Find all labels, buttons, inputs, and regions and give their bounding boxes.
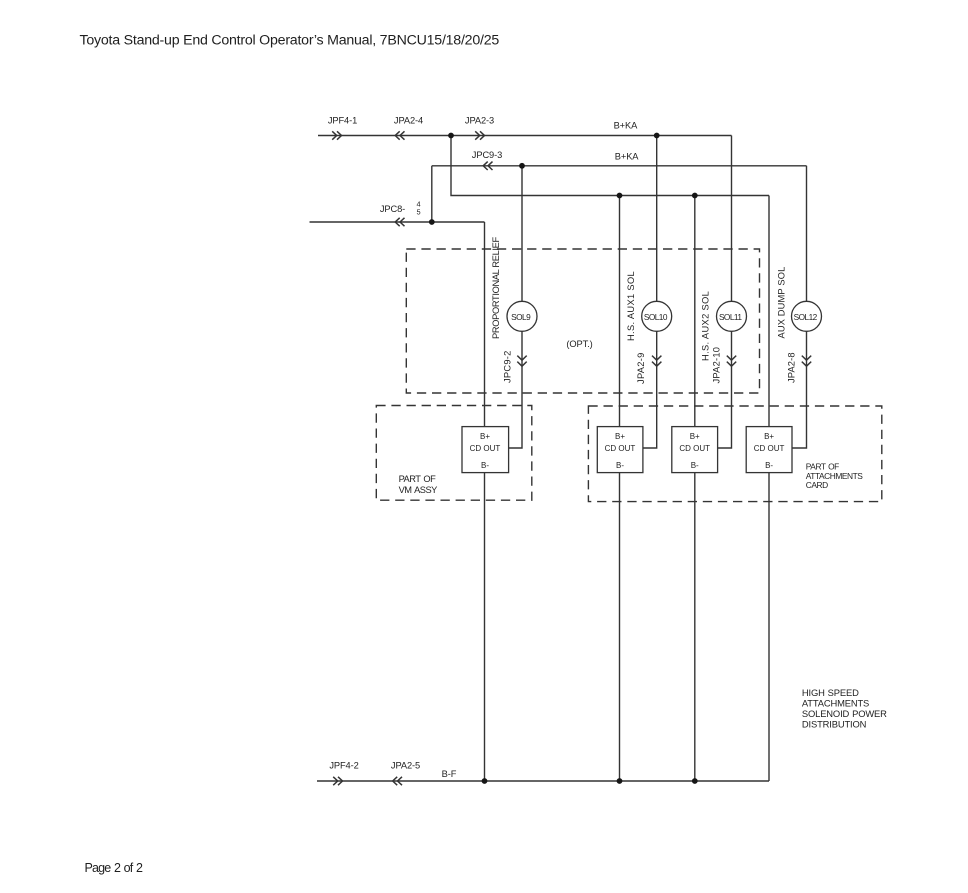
solenoid SOL11 bbox=[717, 301, 747, 331]
svg-text:DISTRIBUTION: DISTRIBUTION bbox=[802, 719, 866, 730]
wire B+KA top (JPF4-1/JPA2-4/JPA2-3) bbox=[318, 135, 732, 137]
svg-text:JPF4-1: JPF4-1 bbox=[328, 115, 357, 125]
wire B- return box4 bbox=[768, 473, 770, 781]
svg-text:CD OUT: CD OUT bbox=[470, 444, 501, 453]
svg-text:H.S. AUX1 SOL: H.S. AUX1 SOL bbox=[626, 271, 636, 341]
connector chevron below SOL10 (down) bbox=[652, 356, 661, 367]
svg-text:JPC9-2: JPC9-2 bbox=[503, 350, 513, 383]
svg-text:CD OUT: CD OUT bbox=[605, 444, 636, 453]
svg-text:SOL11: SOL11 bbox=[719, 312, 742, 322]
svg-text:JPC9-3: JPC9-3 bbox=[472, 150, 502, 160]
svg-text:VM ASSY: VM ASSY bbox=[399, 485, 438, 495]
connector chevron below SOL9 (down) bbox=[517, 356, 526, 367]
junction node wire2/SOL9 bbox=[519, 163, 525, 169]
junction node bus/box3 bbox=[692, 193, 698, 199]
svg-text:PROPORTIONAL RELIEF: PROPORTIONAL RELIEF bbox=[491, 236, 501, 339]
svg-text:B-: B- bbox=[691, 461, 699, 470]
junction node B-F/box2 bbox=[617, 778, 623, 784]
svg-text:SOLENOID POWER: SOLENOID POWER bbox=[802, 708, 887, 719]
svg-text:JPA2-8: JPA2-8 bbox=[787, 352, 797, 383]
svg-text:H.S. AUX2 SOL: H.S. AUX2 SOL bbox=[701, 291, 711, 361]
wire B-F bottom bbox=[317, 780, 769, 782]
wire SOL12 coil feed bbox=[806, 166, 808, 302]
svg-text:JPA2-5: JPA2-5 bbox=[391, 760, 420, 770]
wire B+ feed box3 (x=694.8) bbox=[694, 196, 696, 427]
svg-text:B+: B+ bbox=[615, 432, 625, 441]
connector chevron JPC8- (left) bbox=[395, 218, 404, 226]
connector chevron below SOL11 (down) bbox=[727, 356, 736, 367]
connector chevron JPF4-2 (right) bbox=[333, 777, 342, 785]
solenoid SOL10 bbox=[642, 301, 672, 331]
driver box1 CD OUT (VM assy) bbox=[462, 427, 509, 473]
connector chevron JPF4-1 (right) bbox=[332, 131, 341, 139]
svg-text:B+: B+ bbox=[690, 432, 700, 441]
wire JPC8- bbox=[310, 221, 485, 223]
svg-text:JPA2-9: JPA2-9 bbox=[636, 352, 646, 384]
svg-text:B-: B- bbox=[616, 461, 624, 470]
junction node bus/box2 bbox=[617, 193, 623, 199]
wire B+ feed box2 (x=619.5) bbox=[619, 196, 621, 427]
wire SOL10 coil feed bbox=[656, 136, 658, 302]
svg-text:CD OUT: CD OUT bbox=[679, 444, 710, 453]
wire B+KA second (JPC9-3) bbox=[432, 165, 807, 167]
svg-text:B-: B- bbox=[481, 461, 489, 470]
wire SOL9 coil feed bbox=[521, 166, 523, 302]
connector chevron JPA2-3 (right) bbox=[475, 131, 484, 139]
label PART OF ATTACHMENTS CARD bbox=[806, 462, 863, 490]
svg-text:JPA2-3: JPA2-3 bbox=[465, 115, 494, 125]
svg-text:SOL12: SOL12 bbox=[794, 312, 818, 322]
wire B- return box3 bbox=[694, 473, 696, 781]
solenoid SOL12 bbox=[792, 301, 822, 331]
dashed box PART OF ATTACHMENTS CARD bbox=[588, 406, 881, 502]
svg-text:B+: B+ bbox=[480, 432, 490, 441]
wire B+ feed box4 (x=769) bbox=[768, 196, 770, 427]
svg-text:(OPT.): (OPT.) bbox=[566, 339, 592, 349]
wire SOL11 to CD OUT bbox=[718, 331, 732, 448]
wire SOL10 to CD OUT bbox=[643, 331, 657, 448]
svg-text:CARD: CARD bbox=[806, 480, 828, 490]
connector chevron JPC9-3 (left) bbox=[483, 162, 492, 170]
svg-text:CD OUT: CD OUT bbox=[754, 444, 785, 453]
junction node B-F/box3 bbox=[692, 778, 698, 784]
svg-text:AUX DUMP SOL: AUX DUMP SOL bbox=[776, 267, 786, 339]
connector chevron JPA2-4 (left) bbox=[395, 131, 404, 139]
svg-text:Page 2 of 2: Page 2 of 2 bbox=[85, 861, 143, 875]
wire SOL9 to CD OUT bbox=[509, 331, 522, 448]
dashed box PART OF VM ASSY bbox=[376, 406, 532, 501]
wire B+ feed to VM card (x=484.5) bbox=[484, 222, 486, 427]
solenoid SOL9 bbox=[507, 301, 537, 331]
wire B- return box2 bbox=[619, 473, 621, 781]
junction node wire1/SOL10 bbox=[654, 133, 660, 139]
svg-text:B+KA: B+KA bbox=[614, 120, 639, 130]
driver box3 CD OUT bbox=[672, 427, 718, 473]
wire drop from JPC9-3 to JPC8- node bbox=[431, 166, 433, 222]
wire distribution bus y=195.5 bbox=[451, 136, 769, 196]
junction node B-F/box1 bbox=[482, 778, 488, 784]
wire B- return VM card to B-F bbox=[484, 473, 486, 781]
svg-text:Toyota Stand-up End Control Op: Toyota Stand-up End Control Operator’s M… bbox=[80, 33, 500, 49]
driver box4 CD OUT bbox=[746, 427, 792, 473]
svg-text:PART OF: PART OF bbox=[399, 474, 436, 484]
svg-text:B+: B+ bbox=[764, 432, 774, 441]
svg-text:5: 5 bbox=[416, 208, 420, 217]
wire SOL11 coil feed bbox=[731, 136, 733, 302]
svg-text:JPA2-4: JPA2-4 bbox=[394, 115, 423, 125]
svg-text:ATTACHMENTS: ATTACHMENTS bbox=[802, 697, 869, 708]
driver box2 CD OUT bbox=[597, 427, 643, 473]
dashed box (OPT.) solenoid group bbox=[406, 249, 759, 393]
junction node wire1/bus bbox=[448, 133, 454, 139]
svg-text:B-: B- bbox=[765, 461, 773, 470]
wire SOL12 to CD OUT bbox=[792, 331, 807, 448]
svg-text:B-F: B-F bbox=[442, 769, 457, 779]
svg-text:JPA2-10: JPA2-10 bbox=[712, 347, 722, 384]
svg-text:SOL9: SOL9 bbox=[511, 312, 531, 322]
connector chevron below SOL12 (down) bbox=[802, 356, 811, 367]
junction node JPC8/JPC9-3 bbox=[429, 219, 435, 225]
connector chevron JPA2-5 (left) bbox=[393, 777, 402, 785]
svg-text:B+KA: B+KA bbox=[615, 152, 640, 162]
svg-text:SOL10: SOL10 bbox=[644, 312, 668, 322]
svg-text:JPC8-: JPC8- bbox=[380, 204, 405, 214]
svg-text:JPF4-2: JPF4-2 bbox=[329, 761, 358, 771]
label HIGH SPEED ATTACHMENTS SOLENOID POWER DISTRIBUTION bbox=[802, 687, 887, 730]
